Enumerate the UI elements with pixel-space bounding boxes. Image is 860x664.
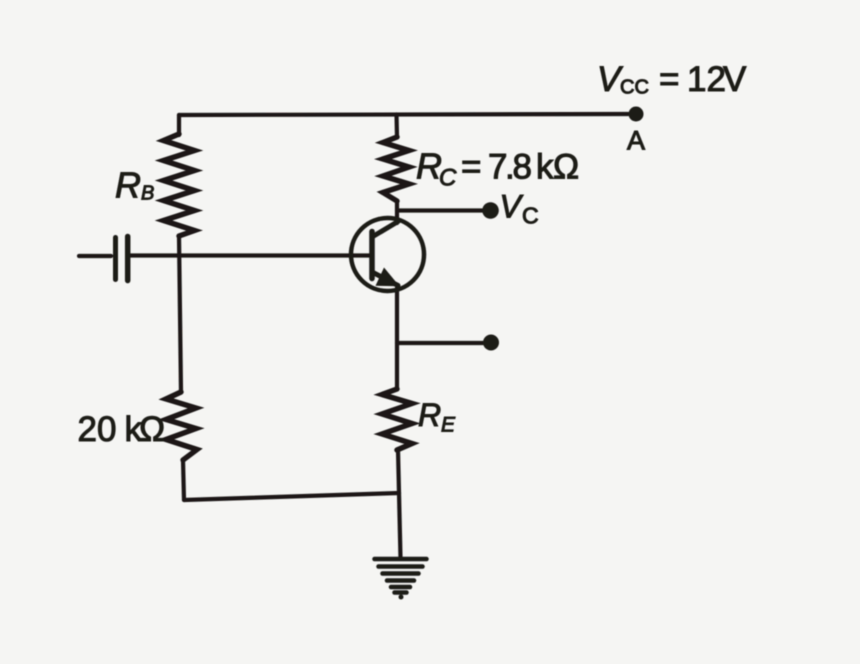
svg-text:8: 8: [513, 148, 532, 187]
svg-text:R: R: [418, 397, 441, 433]
svg-text:20: 20: [78, 410, 117, 449]
svg-text:=: =: [659, 60, 679, 99]
svg-text:C: C: [522, 203, 539, 229]
svg-text:12: 12: [687, 60, 726, 99]
svg-text:A: A: [627, 126, 645, 156]
svg-text:Ω: Ω: [139, 410, 165, 449]
svg-text:CC: CC: [620, 77, 649, 99]
svg-text:R: R: [115, 165, 141, 206]
svg-text:V: V: [723, 60, 747, 99]
svg-text:=: =: [461, 148, 481, 187]
svg-text:E: E: [441, 414, 456, 437]
svg-text:B: B: [141, 183, 154, 205]
svg-text:k: k: [536, 148, 554, 187]
svg-text:V: V: [500, 189, 524, 225]
svg-text:Ω: Ω: [553, 148, 579, 187]
svg-text:C: C: [439, 165, 457, 192]
